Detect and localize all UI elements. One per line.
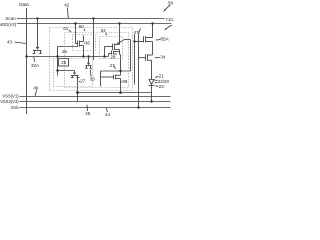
svg-text:46: 46 [33, 85, 39, 90]
svg-text:62: 62 [101, 28, 107, 33]
svg-text:36: 36 [85, 41, 91, 46]
svg-text:44: 44 [105, 112, 111, 117]
svg-text:26: 26 [62, 49, 68, 54]
svg-text:47: 47 [134, 30, 140, 35]
svg-text:27: 27 [110, 63, 116, 68]
svg-text:35A: 35A [161, 36, 169, 41]
svg-text:VSS2(V3): VSS2(V3) [0, 99, 19, 104]
svg-text:42: 42 [64, 3, 70, 8]
svg-text:34: 34 [160, 55, 166, 60]
svg-text:27: 27 [80, 79, 86, 84]
svg-text:61: 61 [63, 26, 69, 31]
svg-text:23: 23 [159, 84, 165, 89]
svg-text:45: 45 [85, 111, 91, 116]
svg-text:Scan: Scan [5, 16, 16, 21]
svg-text:28: 28 [110, 54, 116, 59]
svg-text:38: 38 [122, 79, 128, 84]
svg-text:21: 21 [159, 74, 165, 79]
svg-text:VDD(V2): VDD(V2) [0, 22, 17, 27]
svg-text:32A: 32A [31, 63, 39, 68]
svg-text:33: 33 [90, 76, 96, 81]
svg-text:25: 25 [61, 60, 67, 65]
svg-text:71C: 71C [165, 17, 174, 22]
svg-text:43: 43 [7, 40, 13, 45]
svg-text:Enb: Enb [11, 105, 19, 110]
svg-text:Data: Data [19, 2, 29, 7]
svg-text:60: 60 [79, 24, 85, 29]
svg-text:VSS(V1): VSS(V1) [2, 94, 19, 99]
svg-text:58: 58 [168, 0, 174, 5]
